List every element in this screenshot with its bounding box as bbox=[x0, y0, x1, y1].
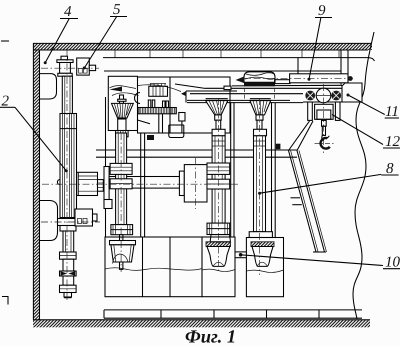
svg-text:10: 10 bbox=[385, 255, 400, 271]
svg-text:Фиг. 1: Фиг. 1 bbox=[185, 328, 236, 346]
svg-text:9: 9 bbox=[318, 3, 326, 19]
svg-text:5: 5 bbox=[113, 2, 121, 18]
svg-text:4: 4 bbox=[64, 4, 72, 20]
